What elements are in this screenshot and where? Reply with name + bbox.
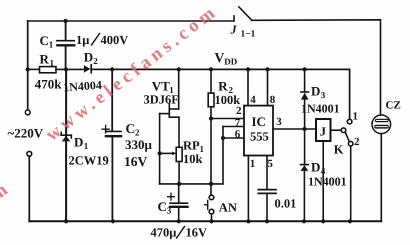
node junction J bottom: [321, 219, 325, 223]
svg-text:R: R: [218, 79, 228, 94]
svg-text:16V: 16V: [124, 154, 148, 169]
switch K: [334, 119, 353, 156]
potentiometer RP1: [160, 139, 205, 184]
node junction VT1 drain: [177, 67, 181, 71]
relay coil J: [316, 119, 331, 221]
contact label 2: [354, 136, 360, 148]
svg-text:VT: VT: [152, 79, 170, 94]
svg-text:D: D: [74, 135, 83, 150]
wire pin4: [247, 69, 249, 105]
svg-text:J: J: [230, 23, 238, 37]
node junction gate/wiper: [158, 151, 162, 155]
svg-text:D: D: [311, 84, 320, 99]
pin label 8: [270, 94, 276, 106]
svg-text:3DJ6F: 3DJ6F: [144, 92, 180, 106]
svg-text:2: 2: [354, 136, 360, 148]
R2 value 100k: [215, 93, 241, 107]
node junction pin2: [209, 116, 213, 120]
node AC terminal bottom: [27, 151, 32, 156]
D3 value 1N4001: [301, 102, 340, 116]
node junction RP1 bottom: [177, 182, 181, 186]
~220V label: [8, 126, 44, 141]
node junction left-rail / R1: [26, 67, 30, 71]
capacitor C3: [158, 184, 188, 221]
wire pin1: [247, 156, 249, 222]
wire left vertical: [27, 21, 29, 110]
node AC terminal top: [25, 110, 30, 115]
svg-text:2CW19: 2CW19: [69, 154, 109, 168]
svg-text:www.elecfans.com: www.elecfans.com: [0, 178, 15, 245]
svg-text:4: 4: [250, 94, 256, 106]
watermark www.elecfans.com: [0, 1, 222, 245]
R1 value 470k: [35, 76, 63, 91]
svg-text:~220V: ~220V: [8, 126, 44, 141]
capacitor 0.01: [258, 190, 296, 222]
svg-text:1N4001: 1N4001: [301, 102, 340, 116]
node junction pin6 corner: [221, 136, 225, 140]
node junction pin8: [265, 67, 269, 71]
svg-text:7: 7: [235, 117, 241, 129]
svg-text:3: 3: [276, 116, 282, 128]
node junction K2 bottom: [348, 219, 352, 223]
zener diode D1: [61, 69, 89, 221]
svg-text:1μ: 1μ: [76, 33, 89, 47]
svg-text:5: 5: [267, 158, 273, 170]
svg-text:1−1: 1−1: [241, 30, 256, 40]
node junction AN bottom: [209, 219, 213, 223]
wire K2 to bottom rail: [350, 146, 352, 221]
node junction trigger bus: [209, 182, 213, 186]
wire top-right rail to CZ: [252, 20, 381, 115]
svg-text:D: D: [84, 50, 93, 65]
node junction C1 top: [64, 19, 68, 23]
wire pin5: [266, 156, 268, 190]
node junction C2 top: [110, 67, 114, 71]
svg-text:D: D: [311, 160, 320, 175]
RP1 value 10k: [183, 152, 203, 166]
node junction pin3/D3/D4: [303, 127, 307, 131]
svg-text:K: K: [334, 143, 344, 157]
wire pin2: [211, 118, 244, 120]
svg-text:RP: RP: [183, 139, 200, 153]
pushbutton AN: [205, 195, 237, 221]
pin label 1: [250, 158, 256, 170]
D2 value 1N4004: [63, 78, 103, 95]
C1 value 1u/400V: [76, 33, 128, 47]
pin label 7: [235, 117, 241, 129]
resistor R1: [40, 52, 57, 73]
svg-text:C: C: [126, 121, 136, 136]
node junction 0.01 bottom: [265, 219, 269, 223]
wire pin3: [273, 128, 316, 130]
node junction R1/D1: [64, 67, 68, 71]
D1 value 2CW19: [69, 154, 109, 168]
svg-text:C: C: [40, 33, 49, 48]
svg-text:CZ: CZ: [386, 99, 401, 111]
node junction R2 top: [209, 67, 213, 71]
svg-text:DD: DD: [224, 57, 237, 67]
transistor VT1: [152, 69, 179, 147]
wire trigger bus horizontal: [160, 127, 223, 184]
svg-text:400V: 400V: [101, 33, 129, 47]
wire top-left rail: [28, 20, 234, 22]
socket CZ: [372, 99, 401, 221]
svg-text:470μ: 470μ: [151, 226, 177, 240]
wire row2 left segment: [28, 68, 40, 70]
pin label 5: [267, 158, 273, 170]
diode D4: [301, 129, 326, 221]
svg-text:3: 3: [167, 206, 172, 216]
svg-text:0.01: 0.01: [275, 197, 297, 211]
D4 value 1N4001: [308, 175, 347, 189]
svg-text:J: J: [320, 125, 326, 139]
svg-text:6: 6: [235, 129, 241, 141]
svg-text:1N4001: 1N4001: [308, 175, 347, 189]
wire VT1 gate lead: [159, 114, 161, 184]
diode D2: [84, 50, 99, 73]
svg-text:AN: AN: [219, 201, 237, 215]
node junction pin1 bottom: [246, 219, 250, 223]
svg-text:R: R: [40, 52, 50, 67]
wire bottom rail: [29, 220, 381, 222]
svg-text:1: 1: [84, 141, 89, 151]
svg-text:16V: 16V: [186, 226, 208, 240]
wire J to switch K: [331, 129, 342, 131]
svg-text:330μ: 330μ: [125, 137, 153, 152]
wire pin7: [223, 126, 244, 128]
svg-text:IC: IC: [252, 114, 266, 129]
capacitor C2: [102, 69, 140, 221]
capacitor C1: [40, 21, 75, 69]
svg-text:8: 8: [270, 94, 276, 106]
pin label 2: [236, 105, 242, 117]
svg-text:V: V: [215, 50, 225, 65]
pin label 6: [235, 129, 241, 141]
C3 value 470u/16V: [151, 226, 208, 240]
diode D3: [301, 69, 326, 129]
svg-text:C: C: [158, 199, 167, 214]
C2 value 330u 16V: [124, 137, 153, 169]
svg-text:2: 2: [93, 56, 98, 66]
pin label 3: [276, 116, 282, 128]
svg-text:3: 3: [321, 90, 326, 100]
node junction D1 bottom: [64, 219, 68, 223]
svg-text:1: 1: [49, 40, 54, 50]
node junction C3 bottom: [177, 219, 181, 223]
svg-text:1: 1: [50, 58, 55, 68]
node junction C2 bottom: [111, 219, 115, 223]
svg-text:1: 1: [250, 158, 256, 170]
wire R1 to D2: [56, 68, 84, 70]
relay contact J1-1: [230, 7, 256, 40]
svg-text:1: 1: [353, 111, 359, 123]
VDD label: [215, 50, 238, 67]
pin label 4: [250, 94, 256, 106]
wire pin8: [267, 69, 269, 105]
resistor R2: [208, 69, 233, 195]
contact label 1: [353, 111, 359, 123]
svg-text:10k: 10k: [183, 152, 203, 166]
svg-text:555: 555: [250, 130, 269, 144]
wire row2 main rail D2 to K: [91, 69, 349, 119]
op-amp U1 IC 555 box: [244, 106, 273, 156]
VT1 value 3DJ6F: [144, 92, 180, 106]
wire pin6: [223, 137, 244, 139]
svg-text:2: 2: [135, 128, 140, 138]
node junction D4 bottom: [302, 219, 306, 223]
wire lower-left vertical: [28, 156, 30, 221]
node junction D3 top: [303, 67, 307, 71]
node junction pin4: [246, 67, 250, 71]
svg-text:2: 2: [236, 105, 242, 117]
svg-text:470k: 470k: [35, 76, 63, 91]
